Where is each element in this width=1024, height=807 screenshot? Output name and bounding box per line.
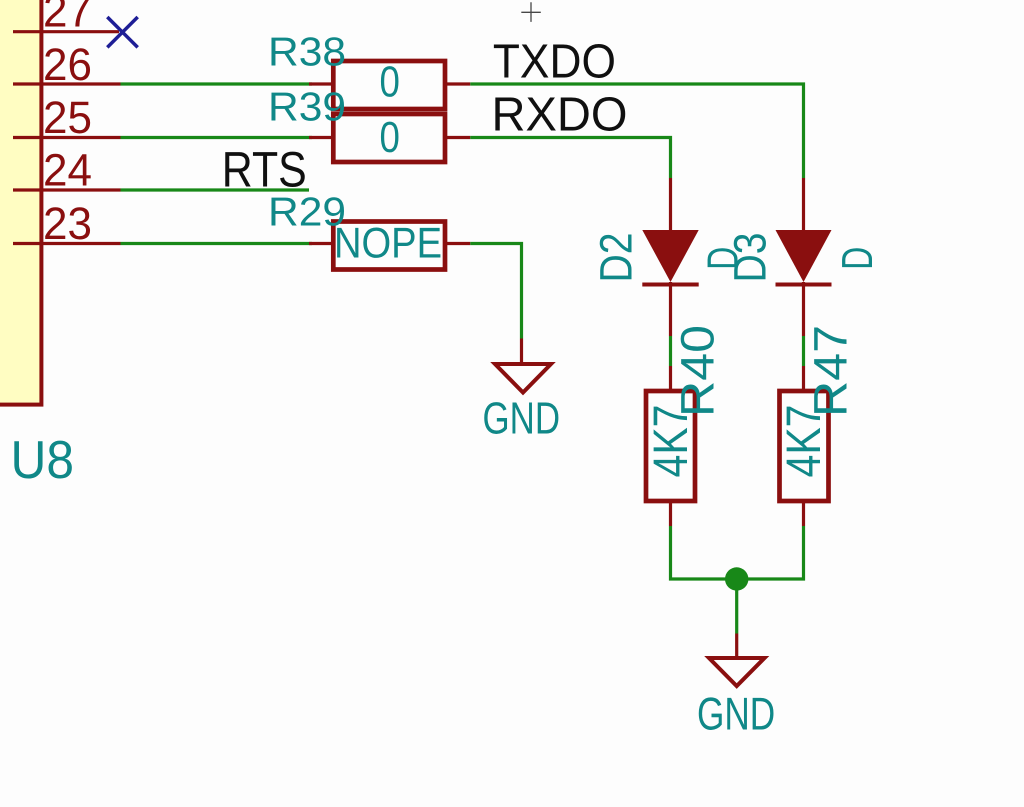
svg-text:NOPE: NOPE <box>334 220 442 268</box>
svg-text:D: D <box>834 247 882 270</box>
wire pin26 to R38 <box>121 82 313 85</box>
svg-text:RXDO: RXDO <box>492 89 628 142</box>
svg-text:0: 0 <box>380 114 400 162</box>
svg-text:R39: R39 <box>268 84 346 130</box>
wire R47 to junction <box>737 526 804 579</box>
svg-text:D3: D3 <box>725 233 776 283</box>
wire RXDO from R39 to D2 <box>470 138 670 179</box>
wire D2 to R40 <box>669 336 672 366</box>
pin 25 <box>13 136 121 139</box>
svg-text:23: 23 <box>43 198 92 249</box>
resistor R40 <box>646 366 695 526</box>
svg-text:TXDO: TXDO <box>493 36 616 89</box>
junction node <box>725 567 748 590</box>
pin 26 <box>13 82 121 85</box>
resistor R29 <box>309 222 470 270</box>
wire pin25 to R39 <box>121 136 313 139</box>
svg-text:25: 25 <box>43 92 92 143</box>
sheet origin cross marker <box>521 2 541 22</box>
ground GND upper <box>495 339 551 393</box>
svg-text:GND: GND <box>697 688 775 740</box>
wire pin24 RTS stub <box>121 188 310 191</box>
wire pin23 to R29 <box>121 242 313 245</box>
svg-text:R47: R47 <box>804 325 857 417</box>
ground GND lower <box>709 634 765 687</box>
diode D2 <box>642 178 698 336</box>
connector U8 body <box>0 0 41 405</box>
svg-text:27: 27 <box>43 0 92 37</box>
wire junction to GND <box>735 579 738 634</box>
svg-text:26: 26 <box>43 39 92 90</box>
resistor R47 <box>780 366 829 526</box>
svg-text:GND: GND <box>483 393 561 444</box>
svg-text:0: 0 <box>380 59 400 107</box>
wire R29 to GND <box>470 244 521 339</box>
pin 24 <box>13 188 121 191</box>
no-connect X on pin 27 <box>107 17 137 47</box>
resistor R38 <box>309 61 470 109</box>
pin 23 <box>13 242 121 245</box>
svg-text:R38: R38 <box>268 29 346 75</box>
pin 27 <box>13 30 119 33</box>
svg-text:4K7: 4K7 <box>777 405 831 478</box>
diode D3 <box>776 178 832 336</box>
svg-text:R40: R40 <box>671 325 724 417</box>
resistor R39 <box>309 114 470 162</box>
wire TXDO from R38 to D3 <box>470 84 803 178</box>
svg-text:4K7: 4K7 <box>644 405 698 478</box>
wire D3 to R47 <box>802 336 805 366</box>
svg-text:U8: U8 <box>11 431 75 490</box>
svg-text:D2: D2 <box>591 233 642 283</box>
wire R40 to junction <box>671 526 737 579</box>
svg-text:24: 24 <box>43 145 92 196</box>
